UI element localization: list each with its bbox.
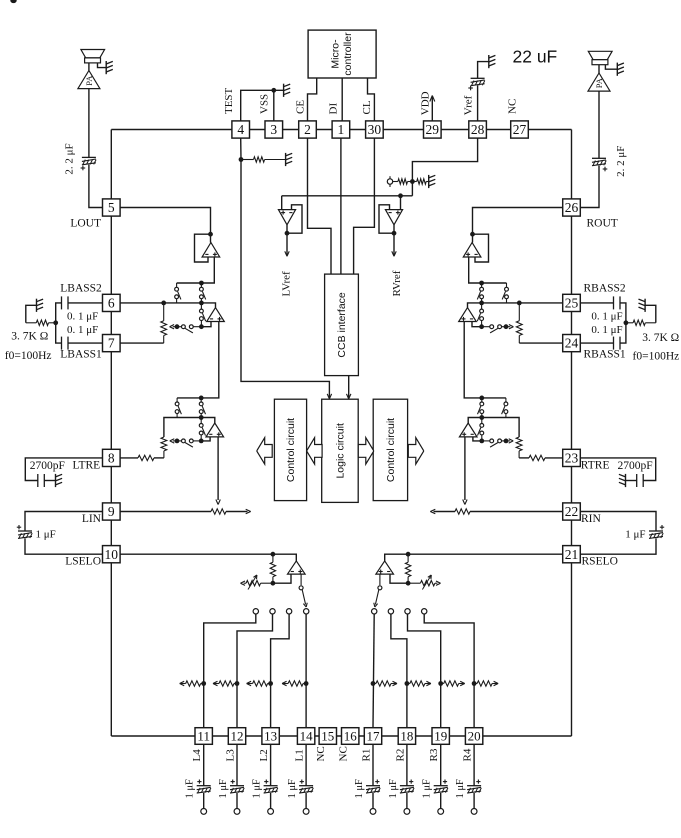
pin 17 bbox=[364, 728, 381, 745]
wire pin 28 to Vref capacitor bbox=[477, 85, 479, 121]
svg-text:DI: DI bbox=[328, 103, 340, 115]
svg-text:8: 8 bbox=[108, 451, 115, 466]
svg-text:CCB interface: CCB interface bbox=[336, 292, 348, 358]
wire bass wiper to op-amp right bbox=[472, 322, 482, 327]
wire left speaker to ground bbox=[98, 63, 107, 68]
node mix pin 17 bbox=[371, 681, 376, 686]
label f0 right bbox=[633, 350, 680, 362]
terminal input R4 bbox=[471, 809, 477, 815]
svg-text:Logic circuit: Logic circuit bbox=[335, 423, 347, 479]
capacitor 0.1uF lower right bbox=[614, 337, 621, 350]
switch treble upper right bbox=[199, 398, 205, 418]
ground 3.7K left bbox=[37, 299, 44, 312]
resistor mix pin 20 bbox=[474, 681, 498, 686]
amplifier PA left bbox=[78, 71, 100, 89]
label LIN bbox=[82, 513, 102, 525]
svg-text:LVref: LVref bbox=[280, 271, 292, 297]
resistor LIN bbox=[120, 509, 247, 514]
wire pin to cap R1 bbox=[372, 745, 374, 786]
svg-text:18: 18 bbox=[400, 729, 413, 744]
svg-text:L3: L3 bbox=[224, 749, 236, 762]
label DI bbox=[328, 103, 340, 115]
pin 8 bbox=[103, 449, 121, 466]
capacitor 2700pF left bbox=[38, 474, 45, 487]
resistor 3.7K left bbox=[26, 320, 56, 325]
wire bass op-amp to treble right bbox=[464, 322, 506, 398]
ground 3.7K right bbox=[639, 299, 646, 312]
amplifier PA right bbox=[588, 73, 610, 91]
label 1uF R1 bbox=[354, 779, 365, 799]
capacitor 2700pF right bbox=[637, 474, 644, 487]
resistor RSELO feedback bbox=[405, 554, 410, 583]
label 3.7K right bbox=[642, 332, 679, 344]
ground left speaker bbox=[106, 61, 113, 74]
svg-text:6: 6 bbox=[108, 296, 115, 311]
terminal selector R4 bbox=[422, 609, 427, 614]
capacitor 0.1uF upper right bbox=[614, 296, 621, 309]
label ROUT bbox=[587, 218, 618, 230]
node LVref output bbox=[285, 231, 290, 236]
wire selector to pin 12 bbox=[237, 614, 273, 727]
arrow LIN bbox=[246, 509, 251, 513]
wiper arrow bass right bbox=[506, 325, 513, 329]
node RBASS2 switch junction bbox=[479, 301, 484, 306]
capacitor 0.1uF lower left bbox=[62, 337, 69, 350]
label LOUT bbox=[70, 218, 101, 230]
block arrow far right bbox=[408, 438, 424, 464]
wire Vref line to LVref input bbox=[281, 196, 283, 210]
wire 0.1uF junction right bbox=[620, 303, 626, 343]
switch bass upper left bbox=[175, 283, 181, 303]
wire RSELO inverting input bbox=[390, 574, 408, 583]
resistor divider right bbox=[412, 179, 428, 184]
label 0.1uF upper right bbox=[591, 310, 622, 322]
svg-text:29: 29 bbox=[426, 122, 440, 137]
label L3 pin bbox=[224, 749, 236, 762]
capacitor 1uF L4 bbox=[197, 780, 211, 794]
switch bass upper right-b bbox=[477, 283, 483, 303]
label LBASS1 bbox=[60, 349, 102, 361]
wire pin 21 RSELO line bbox=[385, 554, 563, 561]
label VSS bbox=[259, 94, 271, 114]
capacitor 2.2uF right bbox=[592, 158, 607, 171]
node RSELO feedback top bbox=[406, 552, 411, 557]
wire RVref output arrow bbox=[392, 225, 396, 256]
capacitor 0.1uF upper left bbox=[62, 296, 69, 309]
op-amp LVref bbox=[278, 210, 295, 225]
svg-text:LOUT: LOUT bbox=[70, 218, 101, 230]
node bass wiper right-a bbox=[504, 324, 509, 329]
svg-text:RBASS2: RBASS2 bbox=[584, 282, 626, 294]
svg-text:1 μF: 1 μF bbox=[287, 779, 298, 799]
svg-text:3: 3 bbox=[270, 122, 277, 137]
wire bottom pin bus (pins 11-20) bbox=[111, 735, 571, 737]
svg-text:1 μF: 1 μF bbox=[625, 529, 645, 541]
pin 23 bbox=[563, 449, 581, 466]
pin 26 bbox=[563, 199, 581, 216]
node divider junction bbox=[410, 179, 415, 184]
control circuit box right bbox=[373, 399, 407, 500]
label NC pin bbox=[338, 746, 350, 761]
node treble top junction right bbox=[479, 396, 484, 401]
label 1uF right bbox=[625, 529, 645, 541]
node bass wiper right-b bbox=[479, 324, 484, 329]
node LOUT feedback bbox=[208, 232, 213, 237]
label 2.2uF left bbox=[64, 143, 76, 174]
svg-text:1 μF: 1 μF bbox=[185, 779, 196, 799]
svg-text:RVref: RVref bbox=[391, 270, 403, 296]
resistor LTRE input bbox=[120, 455, 164, 460]
node RSELO feedback bottom bbox=[406, 581, 411, 586]
capacitor 1uF right bbox=[649, 525, 664, 538]
label Vref bbox=[463, 95, 475, 115]
label 1uF L3 bbox=[218, 779, 229, 799]
svg-text:RIN: RIN bbox=[581, 513, 602, 525]
pin 21 bbox=[563, 546, 581, 563]
node LBASS2 pot tap bbox=[161, 301, 166, 306]
svg-text:2. 2 μF: 2. 2 μF bbox=[615, 146, 627, 177]
svg-text:27: 27 bbox=[513, 122, 527, 137]
svg-text:17: 17 bbox=[367, 729, 381, 744]
wire micro-controller to pin 30 (CL) bbox=[368, 78, 375, 121]
capacitor 2.2uF left bbox=[81, 157, 97, 170]
pin 1 bbox=[332, 121, 350, 138]
switch treble middle right bbox=[478, 418, 484, 441]
ground TEST pulldown bbox=[286, 153, 293, 166]
node ROUT buffer output junction bbox=[479, 281, 484, 286]
pin 3 bbox=[265, 121, 283, 138]
node bass wiper right bbox=[199, 324, 204, 329]
pin 5 bbox=[103, 199, 121, 216]
wire CE pin 2 to CCB bbox=[308, 138, 332, 274]
wire left pin column bus (pins 5-10) bbox=[110, 130, 112, 737]
switch treble upper right-b bbox=[478, 398, 484, 418]
speaker right bbox=[588, 51, 612, 64]
svg-text:Control circuit: Control circuit bbox=[285, 418, 297, 482]
switch treble wiper bbox=[177, 439, 201, 447]
resistor mix pin 13 bbox=[247, 681, 271, 686]
svg-text:1 μF: 1 μF bbox=[252, 779, 263, 799]
wire 2700pF to ground bbox=[44, 480, 55, 482]
label 22 uF bbox=[513, 47, 558, 67]
label 1uF R4 bbox=[455, 779, 466, 799]
label RBASS1 bbox=[584, 349, 626, 361]
wire pin 4 TEST to top ground bbox=[241, 90, 284, 121]
wiper arrow bass left bbox=[170, 325, 177, 329]
pin 30 bbox=[366, 121, 384, 138]
wire LOUT buffer output bbox=[177, 257, 215, 283]
svg-text:30: 30 bbox=[368, 122, 382, 137]
svg-text:f0=100Hz: f0=100Hz bbox=[633, 350, 680, 362]
block arrow far left bbox=[257, 438, 273, 464]
wire pin to cap R2 bbox=[406, 745, 408, 786]
wire selector to pin 19 bbox=[408, 614, 441, 727]
svg-text:11: 11 bbox=[197, 729, 210, 744]
svg-text:1 μF: 1 μF bbox=[422, 779, 433, 799]
resistor mix pin 17 bbox=[373, 681, 397, 686]
wire divider to Vref line bbox=[411, 182, 413, 196]
wire pin to cap L2 bbox=[270, 745, 272, 786]
wire cap to terminal R1 bbox=[372, 793, 374, 809]
wire 1uF to pin 10 bbox=[25, 538, 103, 554]
capacitor 1uF R1 bbox=[366, 780, 380, 794]
pin 14 bbox=[297, 728, 314, 745]
wire LOUT buffer feedback bbox=[195, 234, 211, 262]
capacitor 1uF L2 bbox=[264, 780, 278, 794]
pin 4 bbox=[232, 121, 250, 138]
logic circuit box bbox=[322, 399, 359, 502]
node treble wiper bbox=[175, 439, 180, 444]
wire pin 26 to ROUT buffer bbox=[473, 208, 563, 235]
svg-text:f0=100Hz: f0=100Hz bbox=[5, 350, 52, 362]
wire cap to terminal R2 bbox=[406, 793, 408, 809]
switch bass wiper right bbox=[482, 325, 506, 333]
label LTRE bbox=[72, 460, 100, 472]
label 0.1uF lower left bbox=[67, 324, 98, 336]
resistor RTRE input bbox=[519, 455, 563, 460]
wire selector to pin 14 bbox=[305, 614, 307, 727]
label NC pin 27 bbox=[506, 99, 518, 114]
op-amp RVref bbox=[385, 210, 402, 225]
ground TEST/VSS bbox=[284, 84, 291, 97]
wire bass op-amp to treble bbox=[177, 322, 219, 398]
potentiometer bass left bbox=[161, 303, 167, 343]
pin 25 bbox=[563, 294, 581, 311]
switch treble upper left bbox=[175, 398, 181, 418]
wire DI pin 1 to CCB bbox=[340, 138, 342, 274]
node 3.7K junction right bbox=[624, 320, 629, 325]
wire pin to cap L3 bbox=[236, 745, 238, 786]
terminal input R1 bbox=[370, 809, 376, 815]
svg-text:PA: PA bbox=[84, 75, 94, 86]
wire pin 22 to 1uF bbox=[580, 512, 656, 532]
wire LSELO inverting input bbox=[273, 574, 291, 583]
pin 13 bbox=[262, 728, 279, 745]
label LSELO bbox=[65, 556, 101, 568]
node mix pin 19 bbox=[438, 681, 443, 686]
wire pin 9 to 1uF bbox=[25, 512, 103, 532]
label 1uF left bbox=[36, 529, 56, 541]
svg-text:23: 23 bbox=[565, 451, 579, 466]
svg-text:Vref: Vref bbox=[463, 95, 475, 115]
pin 19 bbox=[432, 728, 449, 745]
terminal input L2 bbox=[268, 809, 274, 815]
wire top pin bus (pins 4-27) bbox=[111, 129, 571, 131]
label 1uF R2 bbox=[388, 779, 399, 799]
resistor 3.7K right bbox=[626, 320, 656, 325]
op-amp ROUT buffer bbox=[463, 234, 481, 257]
svg-text:RSELO: RSELO bbox=[582, 556, 618, 568]
capacitor 1uF left bbox=[17, 525, 32, 538]
wiper arrow treble right bbox=[506, 439, 513, 443]
svg-text:19: 19 bbox=[434, 729, 447, 744]
label 2.2uF right bbox=[615, 146, 627, 177]
variable resistor RSELO bbox=[408, 575, 440, 590]
terminal input L3 bbox=[234, 809, 240, 815]
node 3.7K junction left bbox=[53, 320, 58, 325]
wire pin 23 to 2700pF bbox=[580, 458, 655, 481]
node TEST junction bbox=[239, 157, 244, 162]
svg-text:TEST: TEST bbox=[223, 87, 235, 114]
label 0.1uF lower right bbox=[591, 324, 622, 336]
svg-text:LBASS1: LBASS1 bbox=[60, 349, 102, 361]
svg-text:1 μF: 1 μF bbox=[218, 779, 229, 799]
capacitor 1uF R2 bbox=[400, 780, 414, 794]
label 1uF R3 bbox=[422, 779, 433, 799]
wire CCB to logic circuit bbox=[347, 376, 351, 399]
wire left speaker to PA bbox=[88, 63, 90, 71]
svg-text:9: 9 bbox=[108, 504, 115, 519]
wire cap to terminal L1 bbox=[305, 793, 307, 809]
svg-text:10: 10 bbox=[105, 547, 119, 562]
svg-text:RBASS1: RBASS1 bbox=[584, 349, 626, 361]
wire pin 29 VDD arrow bbox=[430, 96, 435, 122]
svg-text:21: 21 bbox=[565, 547, 579, 562]
pin 28 bbox=[469, 121, 487, 138]
block arrow left bbox=[307, 438, 323, 464]
wire TEST to logic circuit bbox=[241, 138, 332, 399]
pin 16 bbox=[342, 728, 359, 745]
wire pin to cap L4 bbox=[203, 745, 205, 786]
capacitor 1uF L3 bbox=[230, 780, 244, 794]
op-amp bass right bbox=[459, 308, 477, 322]
svg-text:ROUT: ROUT bbox=[587, 218, 618, 230]
svg-text:L4: L4 bbox=[191, 749, 203, 762]
svg-text:2: 2 bbox=[304, 122, 311, 137]
switch RSELO output bbox=[374, 574, 382, 607]
terminal input L1 bbox=[303, 809, 309, 815]
wire pin to cap L1 bbox=[305, 745, 307, 786]
svg-text:NC: NC bbox=[315, 746, 327, 761]
svg-text:2. 2 μF: 2. 2 μF bbox=[64, 143, 76, 174]
svg-text:LTRE: LTRE bbox=[72, 460, 100, 472]
svg-text:Control circuit: Control circuit bbox=[385, 418, 397, 482]
wire selector to pin 17 bbox=[373, 614, 374, 727]
CCB interface box bbox=[325, 274, 359, 376]
label 3.7K left bbox=[11, 331, 48, 343]
resistor mix pin 19 bbox=[441, 681, 465, 686]
svg-text:16: 16 bbox=[344, 729, 358, 744]
label 1uF L4 bbox=[185, 779, 196, 799]
svg-text:LIN: LIN bbox=[82, 513, 102, 525]
ground right speaker bbox=[617, 63, 624, 76]
node LOUT buffer output junction bbox=[199, 281, 204, 286]
pin 18 bbox=[398, 728, 415, 745]
node ROUT feedback bbox=[470, 232, 475, 237]
micro-controller box bbox=[308, 30, 376, 78]
variable resistor LSELO bbox=[241, 575, 273, 590]
arrow RIN bbox=[430, 509, 435, 513]
capacitor 1uF R4 bbox=[467, 780, 481, 794]
wire treble wiper to op-amp right bbox=[473, 437, 482, 441]
svg-text:15: 15 bbox=[321, 729, 334, 744]
svg-text:R1: R1 bbox=[360, 749, 372, 762]
wire treble output arrow bbox=[216, 437, 220, 505]
wire right pin column bus (pins 26-21) bbox=[571, 130, 573, 737]
wire pin 25 RBASS2 line bbox=[468, 303, 563, 308]
svg-text:1 μF: 1 μF bbox=[354, 779, 365, 799]
wire bass pot to pin 7 LBASS1 bbox=[120, 342, 164, 344]
wire pin 5 to LOUT buffer bbox=[120, 208, 210, 235]
wire micro-controller to pin 1 (DI) bbox=[341, 78, 343, 121]
terminal selector R3 bbox=[405, 609, 410, 614]
switch treble middle bbox=[199, 418, 205, 441]
svg-text:L1: L1 bbox=[294, 749, 306, 761]
switch treble upper right-a bbox=[502, 398, 508, 418]
label RBASS2 bbox=[584, 282, 626, 294]
wire 2700pF to ground right bbox=[626, 480, 637, 482]
label CE bbox=[294, 100, 306, 114]
wire Vref capacitor to ground bbox=[478, 62, 489, 79]
svg-text:24: 24 bbox=[565, 336, 579, 351]
label 1uF L1 bbox=[287, 779, 298, 799]
resistor mix pin 11 bbox=[180, 681, 204, 686]
label VDD bbox=[419, 91, 431, 115]
node mix pin 14 bbox=[304, 681, 309, 686]
svg-text:22 uF: 22 uF bbox=[513, 47, 558, 67]
wire Vref reference line bbox=[282, 195, 413, 197]
ground divider bbox=[429, 175, 436, 188]
wire VSS junction to pin 3 bbox=[273, 90, 275, 121]
terminal selector L2 bbox=[286, 609, 291, 614]
wire LVref output arrow bbox=[285, 225, 289, 256]
pin 9 bbox=[103, 503, 121, 520]
wire pin 7 to 0.1uF bbox=[68, 342, 103, 344]
svg-text:2700pF: 2700pF bbox=[618, 460, 653, 472]
label LBASS2 bbox=[60, 282, 102, 294]
potentiometer bass right bbox=[516, 303, 522, 343]
op-amp LOUT buffer bbox=[202, 234, 220, 257]
node bass wiper bbox=[175, 324, 180, 329]
label 0.1uF upper left bbox=[67, 310, 98, 322]
wire PA left to 2.2uF cap bbox=[88, 89, 90, 158]
svg-text:0. 1 μF: 0. 1 μF bbox=[591, 324, 622, 336]
node treble line junction right bbox=[479, 415, 484, 420]
node treble top junction bbox=[199, 396, 204, 401]
pin 24 bbox=[563, 335, 581, 352]
svg-text:12: 12 bbox=[231, 729, 244, 744]
label 2700pF right bbox=[618, 460, 653, 472]
pin 15 bbox=[319, 728, 336, 745]
scan mark top-left bbox=[10, 0, 16, 3]
label TEST bbox=[223, 87, 235, 114]
svg-text:L2: L2 bbox=[258, 749, 270, 761]
node treble wiper right bbox=[199, 439, 204, 444]
label L4 pin bbox=[191, 749, 203, 762]
wire bass pot to pin 24 RBASS1 bbox=[519, 342, 562, 344]
node treble line junction bbox=[199, 415, 204, 420]
block arrow right bbox=[358, 438, 374, 464]
svg-text:LBASS2: LBASS2 bbox=[60, 282, 102, 294]
wire Vref tap to RVref input bbox=[400, 196, 402, 210]
wire right speaker to PA bbox=[598, 65, 600, 73]
op-amp treble right bbox=[459, 423, 477, 437]
node mix pin 11 bbox=[201, 681, 206, 686]
pin 11 bbox=[195, 728, 212, 745]
svg-text:3. 7K Ω: 3. 7K Ω bbox=[11, 331, 48, 343]
op-amp bass left bbox=[207, 308, 225, 322]
svg-text:22: 22 bbox=[565, 504, 579, 519]
wire CL pin 30 to CCB bbox=[354, 138, 375, 274]
wire pin 10 LSELO line bbox=[120, 554, 296, 561]
node RVref tap bbox=[398, 193, 403, 198]
svg-text:28: 28 bbox=[471, 122, 485, 137]
pin 20 bbox=[465, 728, 482, 745]
potentiometer treble right bbox=[516, 437, 522, 458]
svg-text:controller: controller bbox=[342, 32, 354, 76]
svg-text:20: 20 bbox=[468, 729, 481, 744]
svg-text:1: 1 bbox=[338, 122, 345, 137]
